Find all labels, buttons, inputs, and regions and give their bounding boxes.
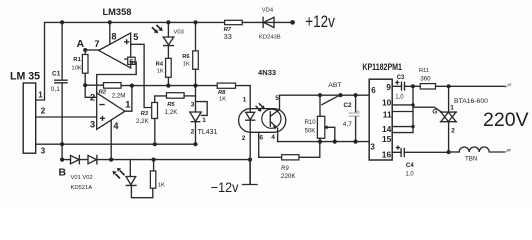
svg-text:2: 2 xyxy=(41,107,46,116)
svg-text:3: 3 xyxy=(90,120,95,130)
svg-text:G: G xyxy=(432,109,437,116)
svg-text:4: 4 xyxy=(271,134,275,141)
svg-text:1,0: 1,0 xyxy=(405,172,414,178)
svg-text:1K: 1K xyxy=(158,183,165,189)
svg-text:1K: 1K xyxy=(219,97,226,103)
svg-text:R5: R5 xyxy=(167,102,175,108)
svg-text:C1: C1 xyxy=(52,71,61,78)
svg-text:6: 6 xyxy=(371,86,376,95)
svg-text:R3: R3 xyxy=(141,111,149,117)
svg-text:11: 11 xyxy=(383,109,392,119)
svg-text:KP1182PM1: KP1182PM1 xyxy=(362,62,402,72)
svg-text:15: 15 xyxy=(382,134,392,144)
svg-text:1: 1 xyxy=(125,100,130,110)
svg-text:1K: 1K xyxy=(157,68,164,74)
svg-text:360: 360 xyxy=(420,75,431,82)
svg-text:R8: R8 xyxy=(218,90,226,96)
svg-text:1: 1 xyxy=(202,117,206,124)
svg-text:2: 2 xyxy=(90,93,95,103)
svg-text:1,0: 1,0 xyxy=(395,95,404,101)
svg-text:C3: C3 xyxy=(397,75,405,81)
svg-text:2: 2 xyxy=(242,135,246,142)
svg-text:1: 1 xyxy=(450,105,454,112)
svg-text:R6: R6 xyxy=(182,54,190,60)
svg-text:R4: R4 xyxy=(156,62,164,68)
svg-text:LM 35: LM 35 xyxy=(10,71,40,83)
svg-text:TL431: TL431 xyxy=(198,129,218,136)
svg-text:6: 6 xyxy=(129,57,133,66)
svg-text:8: 8 xyxy=(111,31,116,41)
svg-text:B: B xyxy=(59,167,67,179)
svg-text:V03: V03 xyxy=(174,30,184,36)
svg-text:3: 3 xyxy=(41,146,46,155)
svg-text:4: 4 xyxy=(113,121,119,131)
svg-text:KD521A: KD521A xyxy=(71,185,93,191)
svg-text:BTA16-600: BTA16-600 xyxy=(454,98,488,105)
svg-text:KD243B: KD243B xyxy=(259,35,281,41)
svg-text:5: 5 xyxy=(275,95,279,102)
svg-text:16: 16 xyxy=(382,149,392,159)
svg-text:VD4: VD4 xyxy=(262,8,274,14)
svg-text:A: A xyxy=(77,38,85,50)
svg-text:50K: 50K xyxy=(305,129,316,135)
svg-text:1,2K: 1,2K xyxy=(165,109,179,116)
svg-text:TBN: TBN xyxy=(465,156,477,163)
svg-text:2,2K: 2,2K xyxy=(136,118,150,125)
svg-text:33: 33 xyxy=(224,32,232,41)
svg-text:+12v: +12v xyxy=(305,13,335,31)
svg-text:10K: 10K xyxy=(71,66,81,72)
svg-text:R9: R9 xyxy=(281,166,289,172)
svg-text:3: 3 xyxy=(191,101,195,108)
svg-text:LM358: LM358 xyxy=(103,7,132,17)
svg-text:3: 3 xyxy=(370,143,375,152)
svg-text:R2: R2 xyxy=(99,89,107,95)
svg-text:4,7: 4,7 xyxy=(343,121,352,128)
svg-text:14: 14 xyxy=(382,124,392,134)
svg-text:C4: C4 xyxy=(406,163,414,169)
svg-text:2: 2 xyxy=(451,128,455,135)
svg-text:2: 2 xyxy=(191,128,195,135)
svg-text:9: 9 xyxy=(386,82,391,92)
svg-text:−12v: −12v xyxy=(211,179,239,195)
svg-text:5: 5 xyxy=(133,32,138,42)
svg-text:1K: 1K xyxy=(183,62,190,68)
svg-text:220K: 220K xyxy=(281,173,296,180)
svg-text:6: 6 xyxy=(259,134,263,141)
svg-text:R1: R1 xyxy=(73,57,81,63)
svg-text:220V: 220V xyxy=(483,109,529,131)
svg-text:C2: C2 xyxy=(344,102,353,109)
svg-text:V01 V02: V01 V02 xyxy=(71,175,93,181)
svg-text:1: 1 xyxy=(38,90,43,99)
svg-text:10: 10 xyxy=(382,98,392,108)
svg-text:1: 1 xyxy=(243,97,247,104)
svg-text:R11: R11 xyxy=(419,68,429,74)
svg-text:ABT: ABT xyxy=(328,82,341,89)
svg-text:0,1: 0,1 xyxy=(51,86,60,93)
svg-text:R10: R10 xyxy=(305,120,317,126)
svg-text:7: 7 xyxy=(94,39,99,49)
svg-text:4N33: 4N33 xyxy=(258,68,276,77)
svg-text:2,2M: 2,2M xyxy=(112,93,126,100)
